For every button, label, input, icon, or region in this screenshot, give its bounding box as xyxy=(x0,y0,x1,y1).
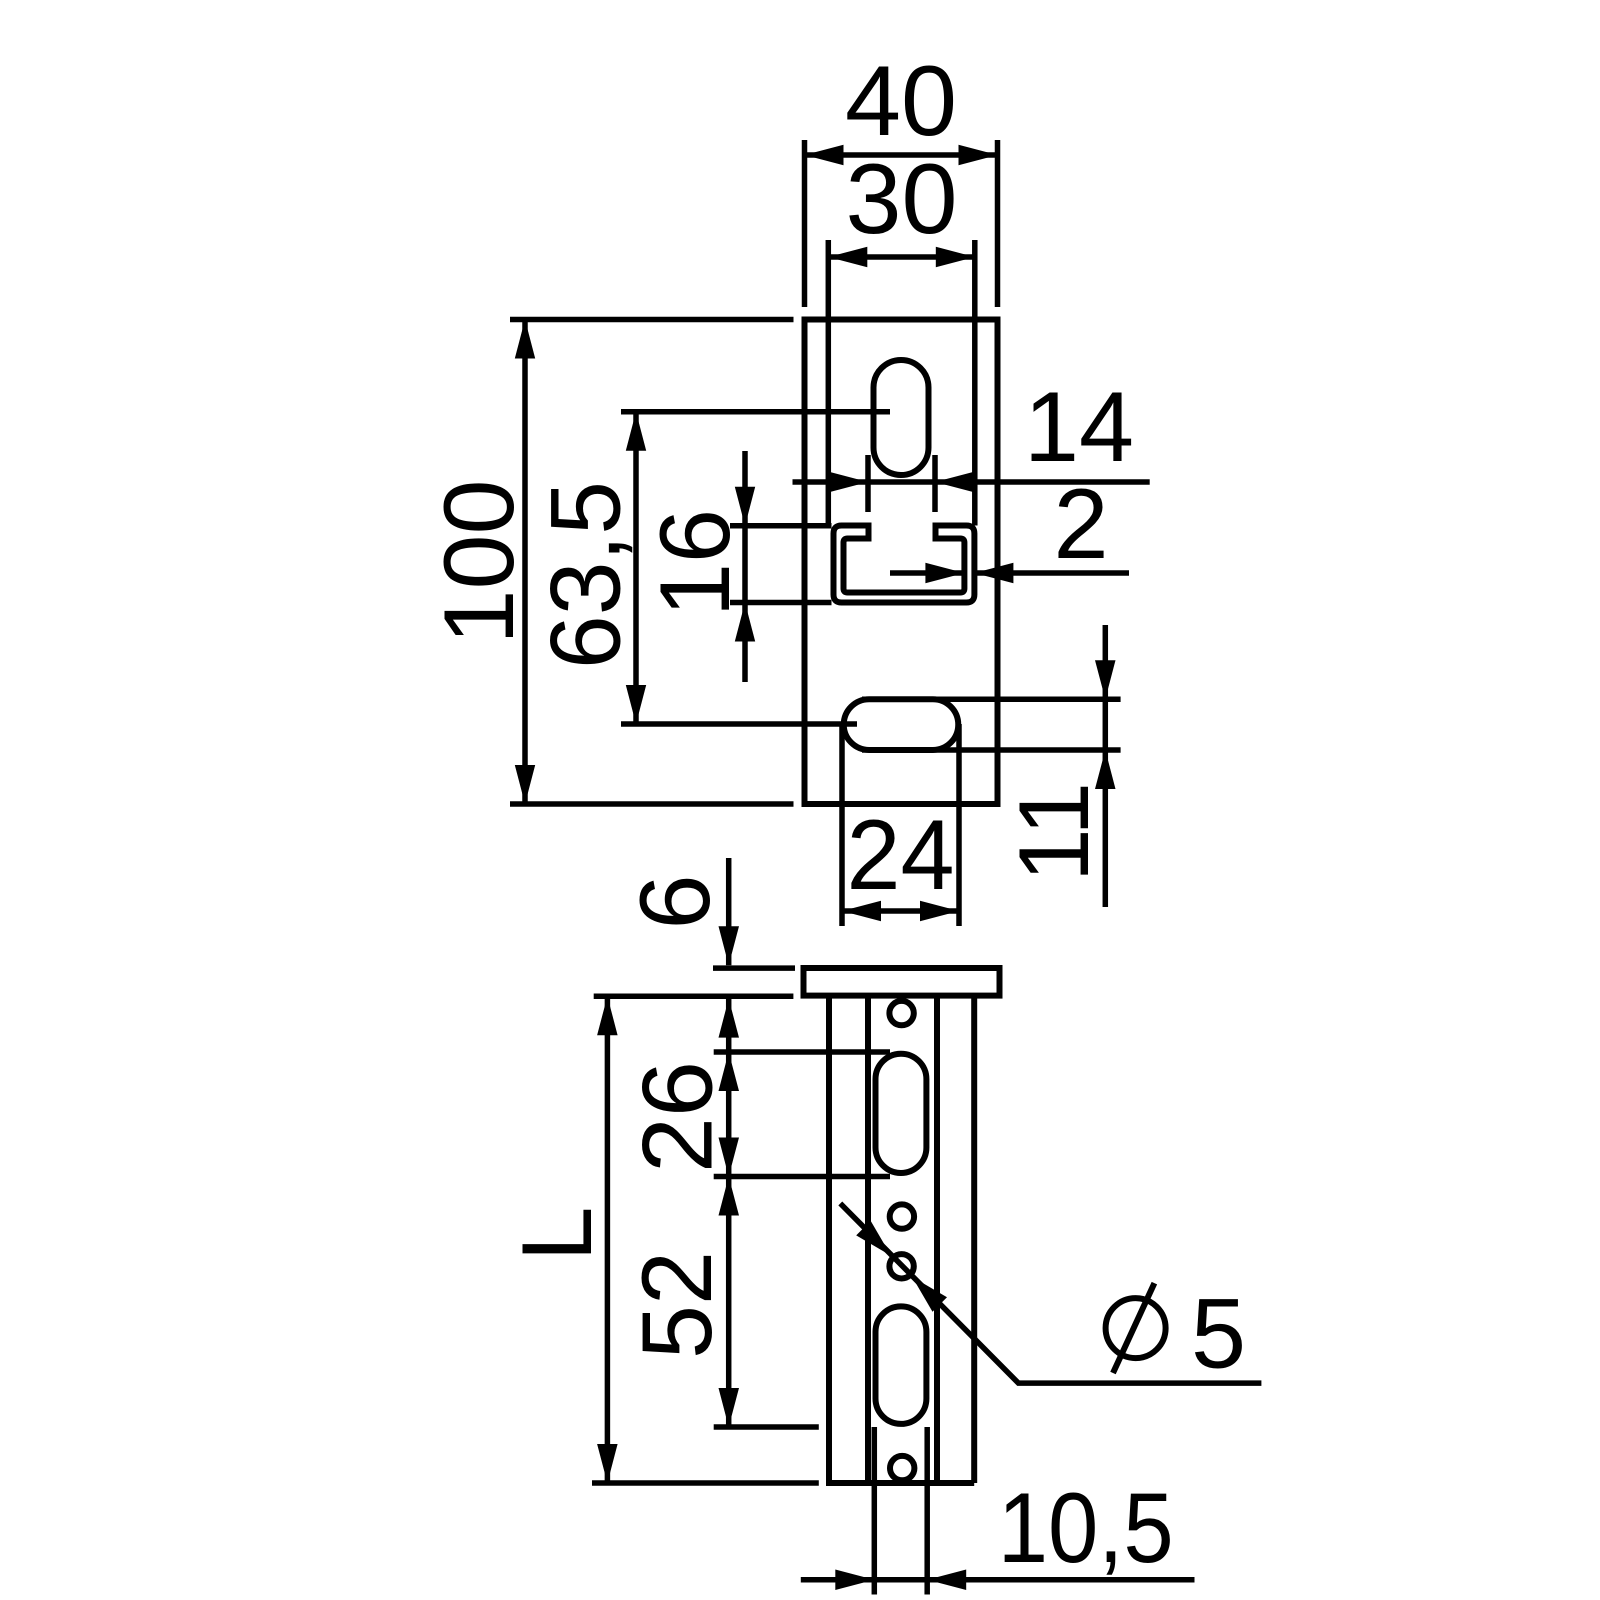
side view: rail outer edge left xyxy=(826,996,832,1483)
dimension 16: extension lines xyxy=(730,523,832,529)
dimension 24: extension lines xyxy=(839,724,845,926)
svg-text:10,5: 10,5 xyxy=(998,1472,1174,1583)
dimension 52: extension line xyxy=(714,1424,819,1430)
dimension 63,5: extension lines xyxy=(621,409,890,415)
svg-text:52: 52 xyxy=(621,1251,732,1359)
svg-text:14: 14 xyxy=(1024,371,1134,482)
dimension 10,5: dimension line with outside arrows xyxy=(801,1577,1195,1583)
dimension 6: dimension line with outside arrows xyxy=(726,858,732,965)
side view: slotted hole 1 (10,5 x 26) xyxy=(876,1054,927,1173)
dimension line stack for 26 and 52 xyxy=(726,999,732,1427)
leader for d5: arrows at hole edge xyxy=(856,1221,891,1256)
dimension 10,5: extension lines xyxy=(872,1427,878,1595)
front view: rail side edge right (30 extension line) xyxy=(972,240,978,526)
svg-text:63,5: 63,5 xyxy=(530,481,641,669)
side view: rail bottom cut edge xyxy=(826,1480,974,1486)
dimension 100: dimension line with arrows xyxy=(522,320,528,805)
svg-text:30: 30 xyxy=(846,143,958,254)
dimension L: extension lines xyxy=(594,993,794,999)
side view: hole 1 (d5) xyxy=(889,1001,913,1025)
front view: bracket plate outline 40x100 xyxy=(805,320,998,805)
dimension 63,5: dimension line with arrows xyxy=(633,412,639,724)
side view: rail lip edge right xyxy=(934,996,940,1483)
front view: rail side edge left (30 extension line) xyxy=(826,240,832,526)
side view: slotted hole 2 (10,5 x 26) xyxy=(876,1306,927,1424)
svg-text:5: 5 xyxy=(1191,1278,1246,1389)
dimension 11: extension lines xyxy=(862,697,1121,703)
side view: rail outer edge right xyxy=(971,996,977,1483)
svg-text:2: 2 xyxy=(1053,468,1108,579)
dimension 24: dimension line with arrows xyxy=(842,908,959,914)
dimension 30: dimension line with arrows xyxy=(828,254,975,260)
leader for d5: diameter symbol xyxy=(1106,1298,1166,1358)
dimension 40: extension lines xyxy=(802,140,808,307)
side view: hole 2 (d5) xyxy=(890,1204,914,1228)
dimension 11: dimension line with outside arrows xyxy=(1103,625,1109,907)
dimension 16: dimension line with outside arrows xyxy=(742,451,748,682)
svg-text:100: 100 xyxy=(423,480,534,645)
dimension 2: dimension lines with outside arrows xyxy=(890,570,964,576)
dimension L: dimension line with arrows xyxy=(605,996,611,1483)
dimension 6: extension tick at plate top xyxy=(713,965,795,971)
side view: hole 3 (d5, referenced by leader) xyxy=(889,1254,913,1278)
side view: top plate 40x6 xyxy=(804,968,1000,996)
svg-text:6: 6 xyxy=(619,874,730,929)
svg-text:26: 26 xyxy=(622,1061,733,1173)
front view: upper vertical slotted hole xyxy=(874,360,929,475)
front view: C-rail cross-section 30x16, wall 2, opening 14 xyxy=(834,526,975,603)
svg-text:24: 24 xyxy=(847,799,955,910)
svg-text:16: 16 xyxy=(639,509,750,617)
dimension 26: arrows xyxy=(719,1052,740,1091)
dimension 14: extension ticks xyxy=(865,455,871,512)
dimension 26: extension lines xyxy=(714,1049,890,1055)
side view: rail lip edge left xyxy=(865,996,871,1483)
leader for d5: diagonal line through hole 3 xyxy=(840,1203,1261,1383)
dimension 100: extension lines xyxy=(510,317,794,323)
svg-text:11: 11 xyxy=(998,782,1109,882)
side view: hole 4 (d5) xyxy=(890,1456,914,1480)
dimension 40: dimension line with arrows xyxy=(805,152,998,158)
front view: lower horizontal slotted hole 24x11 xyxy=(844,699,959,750)
dimension 14: dimension line with outside arrows xyxy=(793,479,1150,485)
svg-text:L: L xyxy=(501,1206,612,1261)
svg-text:40: 40 xyxy=(845,45,957,156)
dimension 52: arrows xyxy=(719,1177,740,1216)
